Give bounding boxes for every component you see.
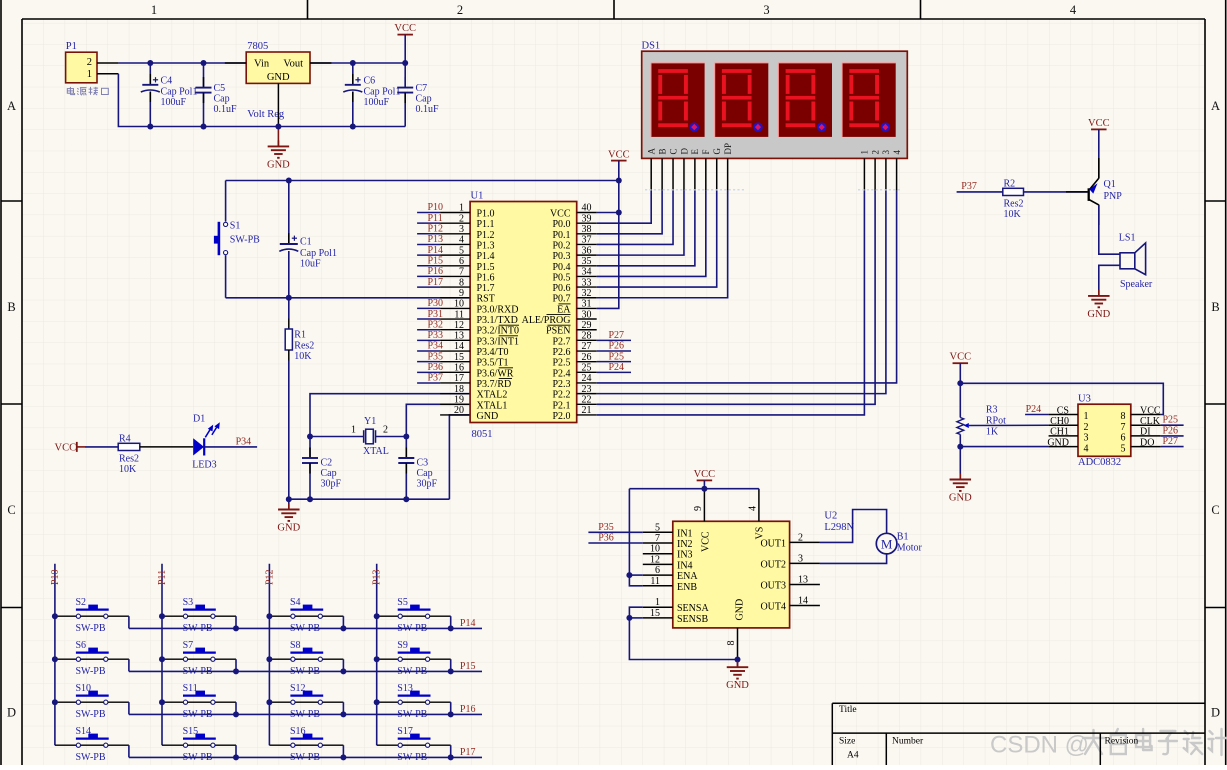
svg-text:7: 7	[655, 533, 660, 544]
motor B1	[876, 533, 897, 554]
wire net P26	[577, 350, 597, 352]
svg-text:P30: P30	[428, 298, 444, 309]
svg-text:2: 2	[87, 57, 92, 68]
DS1 digit cell 2	[715, 63, 769, 137]
svg-text:CLK: CLK	[1140, 416, 1161, 427]
svg-text:S7: S7	[183, 640, 194, 651]
svg-text:P24: P24	[609, 362, 625, 373]
svg-text:30pF: 30pF	[321, 479, 342, 490]
connector P1	[66, 52, 97, 83]
svg-text:GND: GND	[1087, 309, 1110, 320]
svg-text:Cap: Cap	[321, 468, 337, 479]
svg-text:E: E	[690, 149, 700, 155]
U2 pin 1 SENSA	[643, 606, 673, 608]
switch S7	[162, 658, 183, 660]
svg-text:P0.6: P0.6	[552, 283, 570, 294]
svg-text:VCC: VCC	[550, 209, 571, 220]
svg-text:P16: P16	[428, 266, 444, 277]
svg-text:2: 2	[459, 213, 464, 224]
pin 17 wire P37	[417, 382, 440, 384]
wire XTAL2 pin18	[310, 394, 470, 437]
pin 3 wire P12	[417, 233, 440, 235]
svg-text:VCC: VCC	[950, 352, 972, 363]
wire row bus P17	[129, 756, 482, 758]
svg-text:A4: A4	[847, 751, 859, 761]
junction	[159, 656, 165, 662]
svg-text:P1.3: P1.3	[477, 240, 495, 251]
svg-text:S17: S17	[397, 726, 413, 737]
watermark chinese characters	[1083, 729, 1227, 755]
svg-text:D: D	[7, 706, 16, 720]
svg-text:P27: P27	[609, 330, 625, 341]
U2 pin 6 ENA	[643, 574, 673, 576]
wire SENSA SENSB to ground	[629, 607, 737, 659]
svg-text:9: 9	[693, 506, 704, 511]
svg-text:0.1uF: 0.1uF	[214, 104, 238, 115]
svg-text:LS1: LS1	[1119, 232, 1136, 243]
LED D1	[193, 438, 204, 455]
svg-text:ENB: ENB	[677, 582, 697, 593]
svg-text:P3.0/RXD: P3.0/RXD	[477, 304, 519, 315]
U2 pin 5 IN1	[643, 531, 673, 533]
svg-text:RPot: RPot	[986, 416, 1006, 427]
svg-text:P15: P15	[460, 661, 476, 672]
svg-text:D1: D1	[193, 414, 205, 425]
svg-text:P1.5: P1.5	[477, 262, 495, 273]
svg-text:Cap Pol1: Cap Pol1	[161, 86, 198, 97]
switch S17	[377, 744, 398, 746]
svg-text:3: 3	[1084, 433, 1089, 444]
junction	[350, 60, 356, 66]
resistor R4	[118, 443, 140, 450]
svg-text:P0.1: P0.1	[552, 230, 570, 241]
svg-text:ADC0832: ADC0832	[1078, 457, 1121, 468]
svg-text:ENA: ENA	[677, 571, 698, 582]
svg-text:Size: Size	[839, 737, 855, 747]
junction	[701, 486, 707, 492]
svg-text:14: 14	[798, 596, 808, 607]
wire switch out	[108, 658, 129, 660]
svg-text:Vout: Vout	[283, 59, 303, 70]
svg-text:8: 8	[459, 277, 464, 288]
junction	[52, 613, 58, 619]
svg-text:A: A	[1211, 99, 1220, 113]
svg-text:P3.7/RD: P3.7/RD	[477, 379, 512, 390]
wire switch out	[215, 658, 236, 660]
wire 7805 GND stem	[277, 83, 279, 126]
svg-text:U3: U3	[1078, 393, 1091, 404]
svg-text:Revision: Revision	[1105, 737, 1139, 747]
label 电源接口	[67, 87, 108, 96]
svg-text:P0.2: P0.2	[552, 240, 570, 251]
U2 pin 2 OUT1	[790, 541, 820, 543]
svg-text:2: 2	[798, 532, 803, 543]
wire switch out	[108, 744, 129, 746]
svg-text:L298N: L298N	[824, 522, 854, 533]
switch S10	[55, 701, 76, 703]
U3 pin 7 CLK	[1131, 424, 1161, 426]
svg-text:P31: P31	[428, 309, 444, 320]
wire D1 to P34	[204, 446, 257, 448]
svg-text:1: 1	[655, 597, 660, 608]
svg-text:P1.1: P1.1	[477, 219, 495, 230]
wire P0.4 to DS1 E	[577, 265, 597, 267]
svg-text:P1.0: P1.0	[477, 209, 495, 220]
svg-text:S13: S13	[397, 683, 413, 694]
IC U2 L298N body	[673, 521, 790, 628]
DS1 digit cell 1	[651, 63, 705, 137]
svg-text:3: 3	[459, 224, 464, 235]
U3 pin 6 DI	[1131, 435, 1161, 437]
svg-text:B: B	[1211, 300, 1219, 314]
svg-text:P35: P35	[598, 522, 614, 533]
wire CLK net P25	[1161, 424, 1184, 426]
U2 pin 3 OUT2	[790, 562, 820, 564]
pin 8 wire P17	[417, 286, 440, 288]
svg-text:10uF: 10uF	[300, 259, 321, 270]
svg-text:15: 15	[650, 608, 660, 619]
svg-text:B: B	[7, 300, 15, 314]
wire P0.7 to DS1 DP	[577, 297, 597, 299]
svg-text:2: 2	[457, 3, 463, 17]
wire P35	[588, 531, 642, 533]
selection artifact dashes	[645, 189, 745, 191]
DS1 dp dot 4	[881, 122, 890, 131]
U3 pin 2 CH0	[1049, 424, 1078, 426]
svg-text:C: C	[668, 148, 678, 154]
wire P1.1 bottom rail	[97, 73, 118, 75]
svg-text:10K: 10K	[294, 351, 312, 362]
svg-text:S16: S16	[290, 726, 306, 737]
svg-text:P2.5: P2.5	[552, 358, 570, 369]
pin 30 stub	[577, 318, 597, 320]
svg-text:1: 1	[151, 3, 157, 17]
svg-text:S9: S9	[397, 640, 408, 651]
U2 pin 10 IN3	[643, 553, 673, 555]
svg-text:OUT3: OUT3	[760, 581, 786, 592]
svg-text:F: F	[701, 149, 711, 154]
svg-text:10: 10	[454, 299, 464, 310]
svg-text:S12: S12	[290, 683, 306, 694]
U2 pin 8 GND bottom	[737, 628, 739, 660]
svg-text:R1: R1	[294, 330, 306, 341]
wire pin31 EA	[577, 307, 597, 309]
svg-text:C5: C5	[214, 83, 226, 94]
svg-text:P13: P13	[428, 234, 444, 245]
svg-text:DP: DP	[723, 143, 733, 155]
svg-text:XTAL: XTAL	[363, 446, 389, 457]
U3 pin 1 CS	[1049, 414, 1078, 416]
wire row bus P16	[129, 713, 482, 715]
junction	[201, 60, 207, 66]
DS1 dp dot 2	[753, 122, 762, 131]
wire U3 VCC feed	[960, 383, 1163, 414]
DS1 pin stubs	[650, 158, 652, 190]
junction	[52, 656, 58, 662]
wire net P25	[577, 361, 597, 363]
ground GND below R1	[288, 499, 290, 509]
wire RST rail	[226, 297, 471, 299]
switch S12	[269, 701, 290, 703]
svg-text:2: 2	[383, 424, 388, 435]
U2 pin 9 VCC top	[703, 489, 705, 522]
switch S13	[377, 701, 398, 703]
wire speaker to ground	[1099, 265, 1120, 296]
crystal Y1	[310, 436, 364, 438]
ground GND below U2	[737, 660, 739, 668]
svg-text:S10: S10	[76, 683, 92, 694]
svg-text:C: C	[1211, 503, 1219, 517]
svg-text:P3.5/T1: P3.5/T1	[477, 358, 509, 369]
svg-text:P26: P26	[609, 341, 625, 352]
svg-text:100uF: 100uF	[364, 97, 390, 108]
svg-text:SW-PB: SW-PB	[76, 752, 106, 763]
svg-text:C: C	[7, 503, 15, 517]
wire net P27	[577, 339, 597, 341]
capacitor C3	[405, 437, 407, 459]
pin 13 wire P33	[417, 339, 440, 341]
svg-text:Cap Pol1: Cap Pol1	[364, 86, 401, 97]
svg-text:P14: P14	[428, 245, 444, 256]
wire R3 bottom	[959, 434, 961, 479]
svg-text:P24: P24	[1026, 404, 1042, 415]
svg-text:S6: S6	[76, 640, 87, 651]
svg-text:GND: GND	[277, 523, 300, 534]
svg-text:7: 7	[459, 267, 464, 278]
svg-text:P37: P37	[961, 181, 977, 192]
wire CS net P24	[1025, 414, 1049, 416]
wire pin40 VCC	[577, 212, 597, 214]
wire P2.3 to DS1 digit 4	[577, 382, 597, 384]
junction	[957, 380, 963, 386]
svg-text:CS: CS	[1057, 405, 1069, 416]
svg-text:DS1: DS1	[642, 40, 661, 51]
svg-text:P25: P25	[1163, 415, 1179, 426]
switch S1	[225, 181, 227, 222]
svg-text:P25: P25	[609, 351, 625, 362]
svg-text:1: 1	[351, 424, 356, 435]
svg-text:VCC: VCC	[694, 469, 716, 480]
svg-text:Res2: Res2	[119, 453, 139, 464]
potentiometer R3	[957, 418, 964, 435]
svg-text:GND: GND	[949, 493, 972, 504]
junction	[52, 699, 58, 705]
svg-text:P1.7: P1.7	[477, 283, 495, 294]
svg-text:VCC: VCC	[608, 149, 630, 160]
svg-text:Number: Number	[892, 737, 924, 747]
svg-text:P0.4: P0.4	[552, 262, 570, 273]
svg-text:P2.0: P2.0	[552, 411, 570, 422]
svg-text:6: 6	[1121, 433, 1126, 444]
svg-text:Title: Title	[839, 705, 857, 715]
pin 1 wire P10	[417, 212, 440, 214]
svg-text:P14: P14	[460, 618, 476, 629]
svg-text:P3.1/TXD: P3.1/TXD	[477, 315, 518, 326]
svg-text:SW-PB: SW-PB	[76, 623, 106, 634]
wire switch out	[108, 701, 129, 703]
svg-text:CH1: CH1	[1050, 427, 1069, 438]
wire switch out	[323, 701, 344, 703]
wire switch out	[323, 744, 344, 746]
svg-text:EA: EA	[557, 304, 571, 315]
svg-text:C1: C1	[300, 236, 312, 247]
wire row bus P15	[129, 670, 482, 672]
title block	[832, 703, 1205, 765]
U2 pin 13 OUT3	[790, 584, 820, 586]
wire C7 bottom	[404, 93, 406, 127]
svg-text:SW-PB: SW-PB	[230, 234, 260, 245]
junction	[374, 656, 380, 662]
U2 pin 7 IN2	[643, 542, 673, 544]
U2 pin 14 OUT4	[790, 605, 820, 607]
junction	[266, 613, 272, 619]
svg-text:Cap: Cap	[416, 94, 432, 105]
wire column P11	[161, 564, 163, 745]
switch S8	[269, 658, 290, 660]
wire switch out	[430, 744, 451, 746]
svg-text:S4: S4	[290, 597, 301, 608]
pin 29 stub	[577, 329, 597, 331]
svg-text:C7: C7	[416, 83, 428, 94]
svg-text:S8: S8	[290, 640, 301, 651]
IC U3 ADC0832 body	[1078, 404, 1131, 456]
svg-text:CSDN @: CSDN @	[990, 732, 1089, 759]
svg-text:GND: GND	[726, 680, 749, 691]
svg-text:1: 1	[1084, 411, 1089, 422]
junction	[147, 60, 153, 66]
pin 4 wire P13	[417, 243, 440, 245]
display DS1 body	[642, 51, 908, 158]
junction	[374, 613, 380, 619]
svg-text:Cap Pol1: Cap Pol1	[300, 248, 337, 259]
svg-text:S11: S11	[183, 683, 198, 694]
wire column P13	[376, 564, 378, 745]
svg-text:P0.0: P0.0	[552, 219, 570, 230]
svg-text:P16: P16	[460, 704, 476, 715]
svg-text:P2.7: P2.7	[552, 336, 570, 347]
svg-text:17: 17	[454, 373, 464, 384]
wire P2.1 to DS1 digit 2	[577, 403, 597, 405]
svg-text:C4: C4	[161, 76, 173, 87]
svg-text:VCC: VCC	[700, 531, 711, 552]
U3 pin 5 DO	[1131, 446, 1161, 448]
svg-text:5: 5	[655, 522, 660, 533]
svg-text:A: A	[7, 99, 16, 113]
DS1 dp dot 1	[690, 122, 699, 131]
switch S15	[162, 744, 183, 746]
junction	[616, 178, 622, 184]
wire VCC to R4	[85, 446, 118, 448]
switch S4	[269, 615, 290, 617]
svg-text:Cap: Cap	[417, 468, 433, 479]
junction	[159, 699, 165, 705]
wire R4 to D1	[140, 446, 193, 448]
svg-text:10: 10	[650, 544, 660, 555]
svg-text:4: 4	[747, 506, 758, 511]
svg-text:Volt Reg: Volt Reg	[247, 109, 285, 120]
svg-text:R2: R2	[1004, 178, 1016, 189]
svg-text:1K: 1K	[986, 427, 999, 438]
svg-text:P15: P15	[428, 255, 444, 266]
junction	[286, 178, 292, 184]
junction	[307, 434, 313, 440]
wire OUT2 to motor	[820, 554, 887, 564]
svg-text:P1.2: P1.2	[477, 230, 495, 241]
wire U3 GND to R3	[960, 446, 1048, 448]
wire P0.3 to DS1 D	[577, 254, 597, 256]
svg-text:P2.4: P2.4	[552, 368, 570, 379]
svg-text:SW-PB: SW-PB	[76, 709, 106, 720]
ground GND below R3	[959, 474, 961, 480]
capacitor C7	[397, 87, 413, 89]
junction	[626, 572, 632, 578]
wire switch out	[215, 615, 236, 617]
svg-text:3: 3	[881, 150, 891, 155]
wire switch out	[323, 658, 344, 660]
wire DO net P27	[1161, 446, 1184, 448]
wire U1 GND pin20	[449, 415, 470, 499]
pin 16 wire P36	[417, 371, 440, 373]
switch S11	[162, 701, 183, 703]
wire OUT1 to motor	[820, 510, 887, 543]
svg-text:5: 5	[459, 245, 464, 256]
svg-text:P12: P12	[264, 569, 275, 585]
svg-text:18: 18	[454, 384, 464, 395]
wire P36	[588, 542, 642, 544]
capacitor C4	[149, 63, 151, 85]
U2 pin 11 ENB	[643, 585, 673, 587]
svg-text:SENSA: SENSA	[677, 603, 709, 614]
wire column P10	[54, 564, 56, 745]
junction	[266, 699, 272, 705]
svg-text:0.1uF: 0.1uF	[416, 104, 440, 115]
wire xtal ground bus	[289, 498, 450, 500]
svg-text:2: 2	[870, 150, 880, 155]
capacitor C2	[309, 437, 311, 459]
svg-text:SENSB: SENSB	[677, 614, 708, 625]
svg-text:RST: RST	[477, 294, 495, 305]
svg-text:GND: GND	[267, 159, 290, 170]
wire 7805 pin stubs	[225, 62, 246, 64]
svg-text:P1.6: P1.6	[477, 272, 495, 283]
wire switch out	[215, 701, 236, 703]
wire DI net P26	[1161, 435, 1184, 437]
svg-text:8051: 8051	[472, 429, 493, 440]
svg-text:P34: P34	[236, 436, 252, 447]
svg-text:4: 4	[892, 150, 902, 155]
svg-text:VCC: VCC	[394, 23, 416, 34]
svg-text:Res2: Res2	[1004, 198, 1024, 209]
junction	[233, 668, 239, 674]
switch S3	[162, 615, 183, 617]
svg-text:Motor: Motor	[897, 542, 923, 553]
svg-text:DI: DI	[1140, 427, 1151, 438]
svg-text:14: 14	[454, 341, 464, 352]
svg-text:2: 2	[1084, 422, 1089, 433]
svg-text:Vin: Vin	[254, 59, 270, 70]
pin 12 wire P32	[417, 329, 440, 331]
svg-text:P10: P10	[428, 202, 444, 213]
svg-text:P2.1: P2.1	[552, 400, 570, 411]
junction	[266, 656, 272, 662]
svg-text:P37: P37	[428, 373, 444, 384]
junction	[233, 754, 239, 760]
svg-text:S3: S3	[183, 597, 194, 608]
svg-text:1: 1	[459, 203, 464, 214]
svg-text:P11: P11	[157, 570, 168, 585]
U3 pin 3 CH1	[1049, 435, 1078, 437]
svg-text:S2: S2	[76, 597, 87, 608]
